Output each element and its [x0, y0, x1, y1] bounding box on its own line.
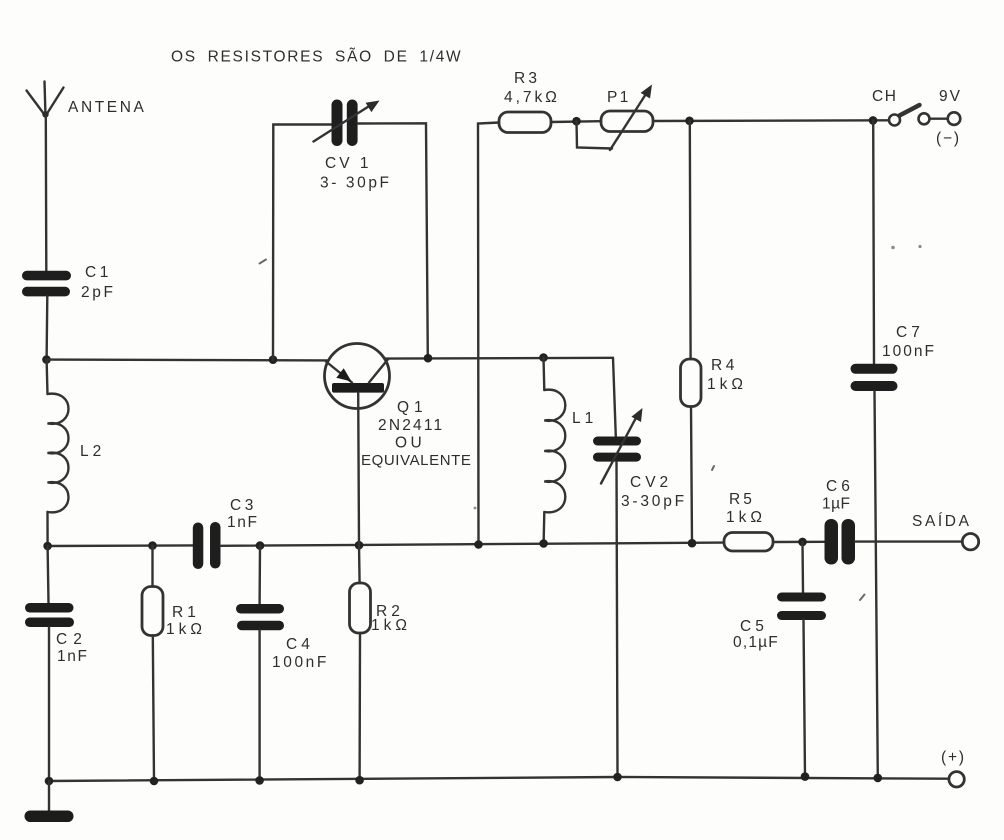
node R1 top — [148, 541, 157, 550]
svg-text:C1: C1 — [85, 264, 112, 281]
wire C2 bottom lead — [48, 627, 50, 781]
label CH — [872, 88, 898, 105]
label C1 2pF — [81, 264, 116, 301]
svg-text:C3: C3 — [230, 497, 257, 514]
node R3 feed — [474, 540, 483, 549]
svg-text:CV2: CV2 — [630, 474, 672, 491]
resistor R4 — [681, 359, 702, 407]
scan speck marks (decorative) — [260, 260, 865, 601]
svg-text:Q1: Q1 — [397, 399, 428, 416]
wire C7 to bottom rail — [875, 391, 878, 778]
node R3 P1 junction — [572, 117, 581, 126]
svg-text:L1: L1 — [572, 410, 597, 427]
wire CV2 to bottom rail — [617, 462, 618, 777]
wire C5 top lead — [801, 542, 804, 593]
label L1 — [572, 410, 597, 427]
svg-text:C5: C5 — [740, 618, 768, 635]
node C5 bottom — [801, 772, 810, 781]
label (-) — [936, 130, 961, 147]
svg-text:CV 1: CV 1 — [325, 155, 371, 172]
svg-text:C7: C7 — [896, 324, 924, 341]
wire emitter node to R2 — [358, 545, 361, 583]
label (+) — [941, 749, 966, 766]
note: resistor wattage title — [171, 49, 462, 66]
capacitor C4 — [236, 604, 284, 630]
wire C2 top lead — [46, 546, 49, 603]
label C3 1nF — [227, 497, 259, 531]
resistor R1 — [142, 587, 163, 636]
node R4 bottom — [688, 539, 697, 548]
wire R3 feed from mid rail — [478, 123, 499, 545]
wire collector rail — [385, 357, 614, 360]
wire R5 to C6 — [773, 541, 825, 544]
svg-text:OU: OU — [395, 435, 425, 452]
label SAIDA — [912, 513, 972, 530]
capacitor C1 — [22, 271, 71, 297]
svg-text:3- 30pF: 3- 30pF — [320, 175, 392, 192]
output terminal SAIDA — [962, 534, 978, 550]
wire C5 bottom lead — [804, 620, 806, 777]
svg-text:9V: 9V — [939, 88, 962, 105]
bottom rail — [49, 777, 949, 781]
node emitter mid rail — [355, 541, 364, 550]
node C4 bottom — [255, 776, 264, 785]
svg-text:C2: C2 — [56, 631, 88, 648]
capacitor C6 — [825, 519, 856, 565]
svg-text:C6: C6 — [826, 478, 854, 495]
svg-text:4,7kΩ: 4,7kΩ — [504, 89, 560, 106]
label C5 0,1µF — [733, 618, 779, 651]
node base rail left — [42, 355, 51, 364]
wire mid rail center — [221, 543, 725, 546]
node C7 top — [869, 116, 878, 125]
switch CH — [889, 105, 930, 126]
variable capacitor CV2 — [593, 408, 643, 484]
wire C4 top lead — [258, 546, 261, 604]
wire mid rail left — [48, 544, 193, 547]
ground — [25, 781, 74, 822]
node CV1 left branch — [269, 355, 278, 364]
resistor R3 — [499, 112, 551, 133]
label ANTENA — [68, 99, 146, 116]
node L1 top — [539, 353, 548, 362]
svg-text:1kΩ: 1kΩ — [726, 509, 766, 526]
svg-text:2pF: 2pF — [81, 284, 116, 301]
label 9V — [939, 88, 962, 105]
svg-text:R4: R4 — [711, 357, 738, 374]
battery terminal 9V — [930, 112, 961, 125]
label R5 1kΩ — [726, 491, 766, 526]
label CV2 3-30pF — [621, 474, 687, 510]
svg-text:L2: L2 — [80, 443, 105, 460]
wire R1 top lead — [151, 546, 153, 587]
node C4 top — [256, 541, 265, 550]
wire CV1 left branch — [273, 125, 331, 360]
svg-text:(−): (−) — [936, 130, 961, 147]
node L1 bottom — [539, 539, 548, 548]
capacitor C7 — [851, 364, 898, 391]
node CV2 bottom — [613, 773, 622, 782]
label C6 1µF — [822, 478, 854, 513]
svg-text:1nF: 1nF — [57, 648, 89, 665]
label R2 1kΩ — [371, 603, 411, 634]
wire base rail — [47, 358, 329, 361]
svg-text:(+): (+) — [941, 749, 966, 766]
inductor L2 — [47, 360, 69, 546]
transistor Q1 — [325, 344, 390, 409]
wire tank corner down to CV2 — [613, 358, 616, 437]
node R4 top — [685, 117, 694, 126]
wire R4 bottom lead — [691, 407, 692, 544]
wire C6 to SAIDA terminal — [855, 540, 962, 542]
svg-text:R5: R5 — [729, 491, 755, 508]
wire C7 top lead — [872, 120, 875, 364]
capacitor C5 — [777, 593, 826, 621]
svg-text:P1: P1 — [607, 89, 631, 106]
wire P1 to CH switch — [653, 119, 889, 122]
capacitor C2 — [25, 603, 74, 627]
label Q1 2N2411 OU EQUIVALENTE — [361, 399, 472, 469]
svg-text:2N2411: 2N2411 — [378, 417, 444, 434]
svg-text:100nF: 100nF — [882, 343, 936, 360]
potentiometer P1 — [577, 85, 654, 151]
svg-text:C4: C4 — [286, 636, 314, 653]
label C7 100nF — [882, 324, 936, 360]
antenna symbol — [27, 82, 64, 118]
svg-text:EQUIVALENTE: EQUIVALENTE — [361, 452, 472, 469]
wire R1 bottom lead — [153, 636, 154, 782]
wire C1 to base-rail node — [45, 297, 48, 360]
svg-text:R1: R1 — [172, 604, 200, 621]
inductor L1 — [544, 358, 566, 544]
svg-text:SAÍDA: SAÍDA — [912, 513, 972, 530]
label C4 100nF — [272, 636, 329, 671]
node R2 bottom — [355, 776, 364, 785]
node C7 bottom — [874, 774, 883, 783]
svg-text:R3: R3 — [514, 70, 540, 87]
svg-text:1kΩ: 1kΩ — [371, 617, 411, 634]
label R4 1kΩ — [707, 357, 747, 393]
node collector CV1 junction — [424, 354, 433, 363]
battery terminal (+) — [949, 772, 964, 787]
svg-text:CH: CH — [872, 88, 898, 105]
svg-text:3-30pF: 3-30pF — [621, 493, 687, 510]
resistor R2 — [350, 583, 371, 633]
wire Q1 emitter down — [357, 393, 360, 546]
wire R4 top lead — [689, 121, 692, 359]
wire R2 bottom lead — [358, 633, 361, 780]
wire CV1 right branch — [358, 123, 428, 358]
svg-text:1kΩ: 1kΩ — [166, 621, 206, 638]
label L2 — [80, 443, 105, 460]
svg-text:OS RESISTORES SÃO DE 1/4W: OS RESISTORES SÃO DE 1/4W — [171, 49, 462, 66]
node ground left — [45, 777, 54, 786]
resistor R5 — [724, 533, 773, 552]
svg-text:1µF: 1µF — [822, 496, 851, 513]
label CV1 3-30pF — [320, 155, 392, 192]
wire R3 to P1 — [551, 120, 601, 123]
node C5 top — [798, 538, 807, 547]
wire C4 bottom lead — [258, 630, 260, 780]
svg-text:1nF: 1nF — [227, 514, 259, 531]
node R1 bottom — [150, 777, 159, 786]
capacitor C3 — [193, 522, 221, 569]
label R3 4,7kΩ — [504, 70, 560, 106]
variable capacitor CV1 — [314, 100, 380, 147]
svg-text:100nF: 100nF — [272, 654, 329, 671]
svg-text:1kΩ: 1kΩ — [707, 376, 747, 393]
wire antenna mast to C1 — [45, 116, 48, 271]
label C2 1nF — [56, 631, 89, 665]
svg-text:ANTENA: ANTENA — [68, 99, 146, 116]
svg-text:0,1µF: 0,1µF — [733, 634, 779, 651]
label R1 1kΩ — [166, 604, 206, 638]
label P1 — [607, 89, 631, 106]
node L2 C2 junction — [43, 542, 52, 551]
